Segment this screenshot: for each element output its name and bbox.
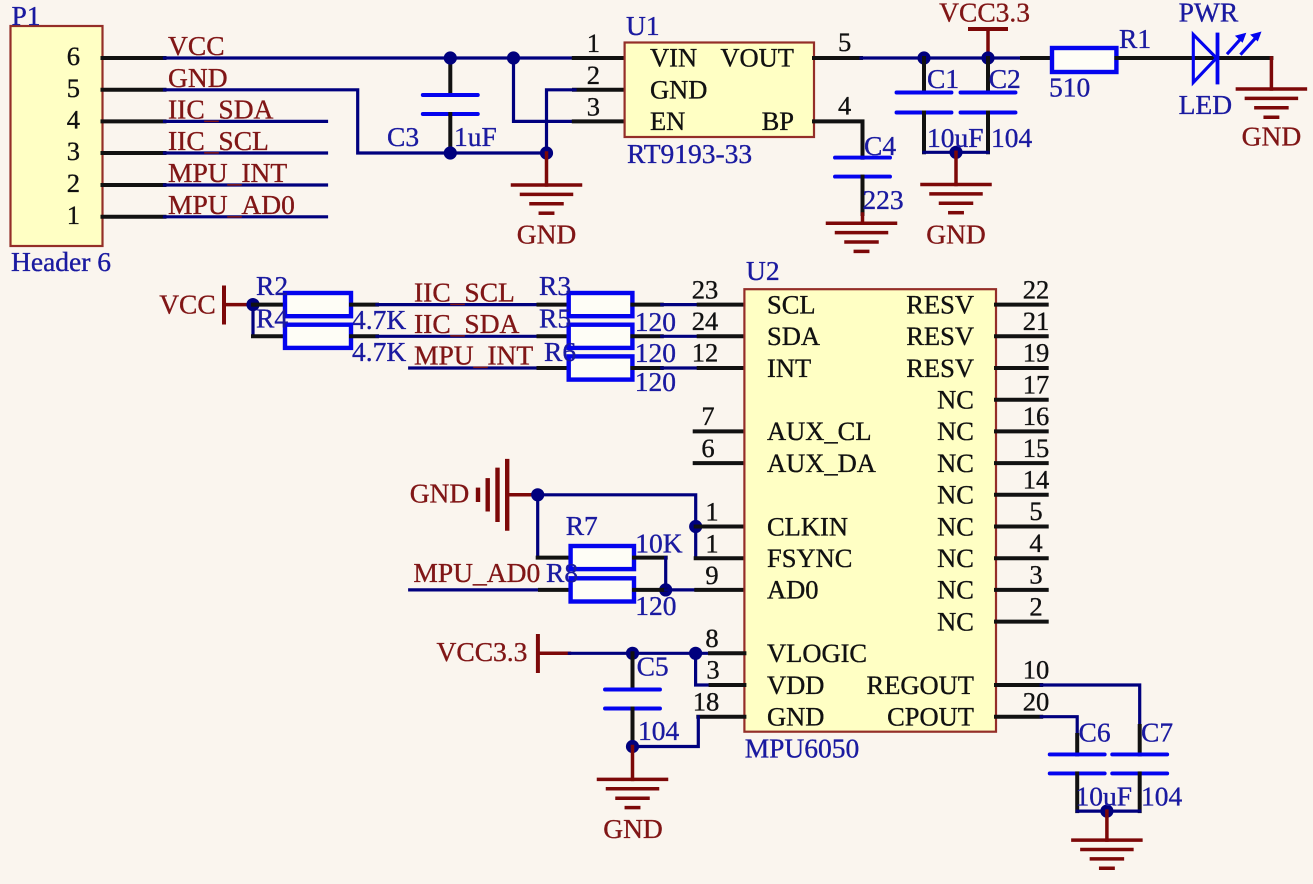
C7 value 104 xyxy=(1141,781,1183,812)
node junction C2 / VCC3.3 xyxy=(981,51,994,64)
resistor R2 xyxy=(285,293,351,316)
C1 value 10uF xyxy=(927,122,984,153)
R5 value 120 xyxy=(635,337,676,368)
net label MPU_AD0 (mid) xyxy=(413,557,540,588)
svg-text:17: 17 xyxy=(1023,369,1050,399)
wire MPU_AD0 stub from P1 pin1 xyxy=(165,215,327,218)
R2 value 4.7K xyxy=(352,304,406,335)
power symbol VCC xyxy=(224,288,253,323)
GND net label (CLKIN FSYNC) xyxy=(410,478,470,509)
U2 pin name RESV row 0 xyxy=(906,289,974,319)
R3 designator xyxy=(539,270,571,301)
svg-text:LED: LED xyxy=(1179,89,1232,120)
node junction CLKIN xyxy=(689,520,702,533)
U2 pin name GND xyxy=(767,702,824,732)
wire R8 to U2 AD0 pin 9 xyxy=(634,588,744,592)
svg-text:MPU6050: MPU6050 xyxy=(745,733,860,764)
wire R4 to R5 (IIC_SDA) xyxy=(351,334,569,338)
U1 pin 1 stub xyxy=(574,28,625,58)
wire MPU_AD0 to R8 xyxy=(410,588,571,591)
svg-text:VOUT: VOUT xyxy=(720,43,794,73)
svg-text:MPU_INT: MPU_INT xyxy=(168,157,287,188)
svg-text:GND: GND xyxy=(650,74,707,104)
svg-text:GND: GND xyxy=(1242,121,1302,152)
wire ground to CLKIN and FSYNC xyxy=(538,495,696,558)
wire MPU_INT stub from P1 pin2 xyxy=(165,183,327,186)
U2 pin 16 stub xyxy=(996,401,1049,431)
U2 pin 19 stub xyxy=(996,338,1049,368)
pin number 24 xyxy=(692,306,719,336)
U2 pin 17 stub xyxy=(996,369,1049,399)
svg-text:C4: C4 xyxy=(864,130,896,161)
svg-text:GND: GND xyxy=(517,219,577,250)
VCC3.3 net label xyxy=(939,0,1030,28)
svg-text:3: 3 xyxy=(706,655,719,685)
wire MPU_INT to R6 xyxy=(410,366,569,369)
R6 designator xyxy=(544,336,576,367)
svg-text:EN: EN xyxy=(650,106,685,136)
svg-text:104: 104 xyxy=(991,122,1033,153)
P1 pin 2 xyxy=(67,168,165,198)
svg-text:1uF: 1uF xyxy=(454,121,497,152)
U2 pin name NC row 3 xyxy=(937,385,974,415)
C6 designator xyxy=(1079,717,1111,748)
svg-text:IIC_SCL: IIC_SCL xyxy=(168,125,269,156)
C5 designator xyxy=(637,651,669,682)
C5 value 104 xyxy=(638,715,680,746)
svg-text:3: 3 xyxy=(587,91,600,121)
svg-text:Header 6: Header 6 xyxy=(11,246,111,277)
U1 value RT9193-33 xyxy=(627,138,752,169)
svg-text:VIN: VIN xyxy=(650,43,697,73)
svg-text:MPU_AD0: MPU_AD0 xyxy=(168,189,295,220)
svg-text:10: 10 xyxy=(1023,655,1050,685)
U2 pin name NC row 9 xyxy=(937,575,974,605)
svg-text:C3: C3 xyxy=(387,121,419,152)
svg-text:16: 16 xyxy=(1023,401,1050,431)
svg-text:R1: R1 xyxy=(1119,23,1151,54)
P1 value label Header 6 xyxy=(11,246,111,277)
GND net label (input rail) xyxy=(517,219,577,250)
svg-text:12: 12 xyxy=(692,338,719,368)
node junction C5 xyxy=(626,647,639,660)
R7 designator xyxy=(566,510,598,541)
svg-text:223: 223 xyxy=(862,184,903,215)
U1 pin name VOUT xyxy=(720,43,794,73)
net label MPU_INT xyxy=(168,157,287,188)
C7 designator xyxy=(1141,717,1173,748)
R3 value 120 xyxy=(635,306,676,337)
resistor R3 xyxy=(569,293,633,316)
svg-text:C5: C5 xyxy=(637,651,669,682)
LED PWR symbol xyxy=(1193,32,1261,83)
net label IIC_SDA (mid) xyxy=(414,308,520,339)
U2 pin name RESV row 2 xyxy=(906,353,974,383)
R5 designator xyxy=(539,303,571,334)
LED value label xyxy=(1179,89,1232,120)
C1 designator xyxy=(927,63,959,94)
R8 value 120 xyxy=(635,590,676,621)
ground symbol GND (input rail) xyxy=(513,153,581,213)
svg-text:VCC3.3: VCC3.3 xyxy=(437,636,528,667)
U2 pin 8 stub xyxy=(696,623,745,653)
U2 pin CLKIN stub xyxy=(696,497,745,527)
node junction C1 xyxy=(917,51,930,64)
svg-text:BP: BP xyxy=(762,106,794,136)
svg-text:6: 6 xyxy=(67,41,80,71)
C3 designator xyxy=(387,121,419,152)
U1 pin 5 stub xyxy=(814,27,861,58)
node junction AD0 xyxy=(659,583,672,596)
capacitor C7 xyxy=(1112,726,1167,811)
U1 pin 4 wire to C4 xyxy=(814,90,863,157)
svg-text:RESV: RESV xyxy=(906,321,974,351)
svg-text:120: 120 xyxy=(635,366,676,397)
svg-text:NC: NC xyxy=(937,416,974,446)
R4 value 4.7K xyxy=(352,336,406,367)
wire R3 to U2 SCL pin 23 xyxy=(632,303,744,307)
GND net label (C1 C2) xyxy=(926,219,986,250)
pin number 10 xyxy=(1023,655,1050,685)
svg-text:5: 5 xyxy=(67,73,80,103)
connector P1 xyxy=(11,26,103,246)
node junction C1 C2 ground xyxy=(949,146,962,159)
svg-text:3: 3 xyxy=(1029,560,1042,590)
svg-text:VLOGIC: VLOGIC xyxy=(767,638,867,668)
svg-text:INT: INT xyxy=(767,353,811,383)
C2 value 104 xyxy=(991,122,1033,153)
U2 pin 15 stub xyxy=(996,433,1049,463)
GND net label (PWR LED) xyxy=(1242,121,1302,152)
U2 pin name NC row 5 xyxy=(937,448,974,478)
svg-text:IIC_SCL: IIC_SCL xyxy=(414,277,515,308)
node junction ground rail at U1 xyxy=(540,146,553,159)
resistor R6 xyxy=(569,356,633,379)
svg-text:4.7K: 4.7K xyxy=(352,304,406,335)
svg-text:8: 8 xyxy=(705,623,718,653)
P1 pin 1 xyxy=(67,200,165,230)
svg-text:NC: NC xyxy=(937,448,974,478)
U2 pin name CPOUT row 13 xyxy=(887,702,974,732)
U2 pin FSYNC stub xyxy=(696,528,745,558)
VCC net label (pullups) xyxy=(159,289,216,320)
C4 value 223 xyxy=(862,184,903,215)
svg-text:R5: R5 xyxy=(539,303,571,334)
P1 pin 5 xyxy=(67,73,165,103)
svg-text:104: 104 xyxy=(638,715,680,746)
svg-text:CPOUT: CPOUT xyxy=(887,702,974,732)
resistor R1 xyxy=(1052,48,1116,72)
wire VCC net (P1 pin6 to U1 VIN) xyxy=(165,56,574,59)
svg-text:R3: R3 xyxy=(539,270,571,301)
wire C1 C2 ground rail xyxy=(924,151,988,154)
U2 pin 21 stub xyxy=(996,306,1049,336)
svg-text:U2: U2 xyxy=(746,255,780,286)
svg-text:120: 120 xyxy=(635,306,676,337)
U2 pin name NC row 4 xyxy=(937,416,974,446)
svg-text:IIC_SDA: IIC_SDA xyxy=(414,308,520,339)
svg-text:1: 1 xyxy=(705,528,718,558)
pin number 12 xyxy=(692,338,719,368)
net label MPU_AD0 xyxy=(168,189,295,220)
svg-text:REGOUT: REGOUT xyxy=(867,670,974,700)
R2 designator xyxy=(256,270,288,301)
svg-text:MPU_AD0: MPU_AD0 xyxy=(413,557,540,588)
svg-text:RESV: RESV xyxy=(906,289,974,319)
wire R6 to U2 INT pin 12 xyxy=(632,366,744,370)
U2 pin name SDA xyxy=(767,321,820,351)
pin number 23 xyxy=(692,274,719,304)
node junction ground to R7 xyxy=(531,488,544,501)
capacitor C2 xyxy=(961,58,1016,152)
svg-text:NC: NC xyxy=(937,543,974,573)
svg-text:SCL: SCL xyxy=(767,289,816,319)
svg-text:3: 3 xyxy=(67,136,80,166)
node junction VCC pullups xyxy=(246,298,259,311)
U2 pin name CLKIN xyxy=(767,511,848,541)
node junction C5 ground xyxy=(626,740,639,753)
svg-text:FSYNC: FSYNC xyxy=(767,543,852,573)
U2 pin name INT xyxy=(767,353,811,383)
svg-text:4.7K: 4.7K xyxy=(352,336,406,367)
svg-text:22: 22 xyxy=(1023,274,1050,304)
svg-text:5: 5 xyxy=(838,27,851,57)
U1 designator xyxy=(626,10,660,41)
U1 pin name VIN xyxy=(650,43,697,73)
net label IIC_SCL (mid) xyxy=(414,277,515,308)
svg-text:AUX_DA: AUX_DA xyxy=(767,448,876,478)
U2 pin name REGOUT row 12 xyxy=(867,670,974,700)
svg-text:7: 7 xyxy=(701,401,714,431)
node junction VLOGIC xyxy=(689,647,702,660)
wire VCC to U1 EN xyxy=(514,58,574,121)
svg-text:RT9193-33: RT9193-33 xyxy=(627,138,752,169)
svg-text:CLKIN: CLKIN xyxy=(767,511,848,541)
svg-text:P1: P1 xyxy=(12,0,41,31)
U1 pin name EN xyxy=(650,106,685,136)
wire REGOUT to C7 xyxy=(996,685,1140,726)
capacitor C4 xyxy=(835,158,890,224)
svg-text:MPU_INT: MPU_INT xyxy=(414,340,533,371)
net label IIC_SCL xyxy=(168,125,269,156)
svg-text:5: 5 xyxy=(1029,496,1042,526)
svg-text:NC: NC xyxy=(937,575,974,605)
svg-text:1: 1 xyxy=(67,200,80,230)
svg-text:RESV: RESV xyxy=(906,353,974,383)
svg-text:GND: GND xyxy=(603,813,663,844)
resistor R4 xyxy=(285,325,351,348)
net label MPU_INT (mid) xyxy=(414,340,533,371)
U2 pin 3 stub xyxy=(996,560,1047,590)
svg-text:C1: C1 xyxy=(927,63,959,94)
U2 pin name RESV row 1 xyxy=(906,321,974,351)
svg-text:10uF: 10uF xyxy=(927,122,984,153)
net label VCC xyxy=(168,30,225,61)
pin number 3 (VDD) xyxy=(706,655,719,685)
resistor R8 xyxy=(571,578,634,601)
svg-text:NC: NC xyxy=(937,385,974,415)
node junction C6 C7 ground xyxy=(1100,805,1113,818)
ground symbol (C5) xyxy=(599,747,667,808)
capacitor C6 xyxy=(1050,735,1105,811)
U2 pin 22 stub xyxy=(996,274,1049,304)
svg-text:NC: NC xyxy=(937,606,974,636)
wire U2 GND pin to C5 ground xyxy=(633,717,745,747)
resistor R5 xyxy=(569,325,633,348)
P1 pin 6 xyxy=(67,41,165,71)
svg-text:C2: C2 xyxy=(989,63,1021,94)
P1 designator label xyxy=(12,0,41,31)
svg-text:4: 4 xyxy=(67,104,80,134)
svg-text:21: 21 xyxy=(1023,306,1050,336)
node junction VCC at C3 xyxy=(444,51,457,64)
net label GND xyxy=(168,62,228,93)
ground symbol (CLKIN FSYNC) sideways xyxy=(478,461,538,528)
ground symbol (C6 C7) xyxy=(1073,811,1141,868)
svg-text:24: 24 xyxy=(692,306,719,336)
ground symbol (C4) xyxy=(828,223,896,251)
svg-text:510: 510 xyxy=(1049,72,1090,103)
U2 value MPU6050 xyxy=(745,733,860,764)
C3 value 1uF xyxy=(454,121,497,152)
svg-text:NC: NC xyxy=(937,480,974,510)
svg-text:VCC: VCC xyxy=(168,30,225,61)
U2 pin 6 stub xyxy=(695,433,745,463)
C2 designator xyxy=(989,63,1021,94)
svg-text:20: 20 xyxy=(1023,686,1050,716)
svg-text:120: 120 xyxy=(635,337,676,368)
U2 pin name AD0 xyxy=(767,575,819,605)
node junction VCC / EN feed xyxy=(507,51,520,64)
svg-text:10uF: 10uF xyxy=(1076,781,1133,812)
svg-text:GND: GND xyxy=(410,478,470,509)
U2 pin 2 stub xyxy=(996,591,1047,621)
wire VCC3.3 to VLOGIC and VDD xyxy=(569,653,744,685)
capacitor C5 xyxy=(605,653,660,746)
svg-text:AD0: AD0 xyxy=(767,575,819,605)
svg-text:VDD: VDD xyxy=(767,670,824,700)
wire R2 to R3 (IIC_SCL) xyxy=(351,303,569,307)
R7 value 10K xyxy=(635,528,683,559)
svg-text:GND: GND xyxy=(767,702,824,732)
R1 designator xyxy=(1119,23,1151,54)
U2 pin name VDD xyxy=(767,670,824,700)
svg-text:14: 14 xyxy=(1023,465,1050,495)
U2 pin name SCL xyxy=(767,289,816,319)
U2 pin name NC row 8 xyxy=(937,543,974,573)
wire VCC to R2 xyxy=(253,303,285,307)
U2 pin 7 stub xyxy=(695,401,745,431)
svg-text:U1: U1 xyxy=(626,10,660,41)
svg-text:6: 6 xyxy=(701,433,714,463)
wire CPOUT to C6 xyxy=(996,717,1077,735)
power symbol VCC3.3 (U2) xyxy=(538,636,570,671)
svg-text:AUX_CL: AUX_CL xyxy=(767,416,872,446)
svg-text:2: 2 xyxy=(67,168,80,198)
svg-text:1: 1 xyxy=(705,497,718,527)
svg-text:R4: R4 xyxy=(256,303,288,334)
svg-text:SDA: SDA xyxy=(767,321,820,351)
R1 value 510 xyxy=(1049,72,1090,103)
svg-text:R6: R6 xyxy=(544,336,576,367)
svg-text:18: 18 xyxy=(693,686,720,716)
resistor R7 xyxy=(571,546,634,569)
R8 designator xyxy=(546,557,578,588)
IC U2 xyxy=(744,289,996,732)
capacitor C1 xyxy=(897,58,952,152)
IC U1 xyxy=(625,43,814,138)
capacitor C3 xyxy=(423,58,478,153)
svg-text:19: 19 xyxy=(1023,338,1050,368)
wire VCC to R4 xyxy=(253,305,285,337)
wire C6 C7 ground rail xyxy=(1077,809,1140,812)
svg-text:PWR: PWR xyxy=(1179,0,1239,28)
svg-text:4: 4 xyxy=(1029,528,1042,558)
wire ground to R7 xyxy=(538,495,571,558)
svg-text:C6: C6 xyxy=(1079,717,1111,748)
svg-text:1: 1 xyxy=(587,28,600,58)
svg-text:R7: R7 xyxy=(566,510,598,541)
PWR designator xyxy=(1179,0,1239,28)
svg-text:IIC_SDA: IIC_SDA xyxy=(168,93,274,124)
U2 pin name VLOGIC xyxy=(767,638,867,668)
ground symbol (PWR LED) xyxy=(1237,58,1305,117)
power symbol VCC3.3 xyxy=(970,29,1006,58)
C6 value 10uF xyxy=(1076,781,1133,812)
net label IIC_SDA xyxy=(168,93,274,124)
svg-text:23: 23 xyxy=(692,274,719,304)
node junction GND rail at C3 xyxy=(444,146,457,159)
U2 pin name NC row 6 xyxy=(937,480,974,510)
wire GND net from P1 pin5 xyxy=(165,90,547,153)
wire R1 to LED to ground xyxy=(1116,56,1271,60)
GND net label (C5) xyxy=(603,813,663,844)
U2 pin name FSYNC xyxy=(767,543,852,573)
R4 designator xyxy=(256,303,288,334)
svg-text:9: 9 xyxy=(705,560,718,590)
ground symbol (C1 C2) xyxy=(922,152,990,212)
svg-text:4: 4 xyxy=(838,90,851,120)
svg-text:2: 2 xyxy=(587,60,600,90)
U2 designator xyxy=(746,255,780,286)
U1 pin 2 wire to ground rail xyxy=(547,60,625,153)
svg-text:10K: 10K xyxy=(635,528,683,559)
U2 pin 4 stub xyxy=(996,528,1047,558)
wire IIC_SCL stub from P1 pin3 xyxy=(165,151,327,154)
U1 pin name BP xyxy=(762,106,794,136)
svg-text:15: 15 xyxy=(1023,433,1050,463)
svg-text:R8: R8 xyxy=(546,557,578,588)
U2 pin name NC row 7 xyxy=(937,511,974,541)
svg-text:2: 2 xyxy=(1029,591,1042,621)
wire IIC_SDA stub from P1 pin4 xyxy=(165,120,327,123)
P1 pin 4 xyxy=(67,104,165,134)
R6 value 120 xyxy=(635,366,676,397)
pin number 18 (GND) xyxy=(693,686,720,716)
svg-text:GND: GND xyxy=(168,62,228,93)
U2 pin 14 stub xyxy=(996,465,1049,495)
U2 pin 5 stub xyxy=(996,496,1047,526)
U2 pin name AUX_CL xyxy=(767,416,872,446)
U2 pin name AUX_DA xyxy=(767,448,876,478)
U2 pin name NC row 10 xyxy=(937,606,974,636)
svg-text:104: 104 xyxy=(1141,781,1183,812)
svg-text:NC: NC xyxy=(937,511,974,541)
svg-text:C7: C7 xyxy=(1141,717,1173,748)
P1 pin 3 xyxy=(67,136,165,166)
wire VCC3.3 net (VOUT to R1) xyxy=(861,56,1022,59)
pin number 20 xyxy=(1023,686,1050,716)
